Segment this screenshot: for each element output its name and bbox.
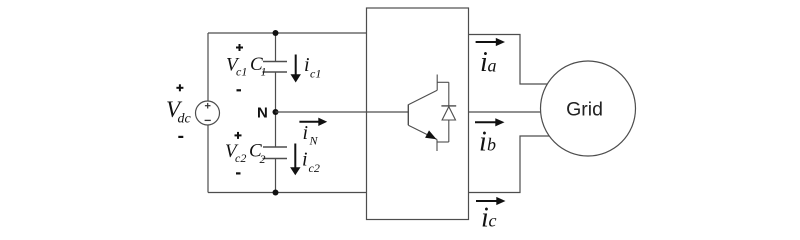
label i_c1 bbox=[304, 54, 321, 81]
wire capacitor branch middle bbox=[275, 72, 277, 147]
arrow i_c2 bbox=[290, 144, 300, 176]
label i_c bbox=[481, 203, 497, 234]
label i_N bbox=[303, 122, 319, 148]
label Vc1 C1 bbox=[226, 54, 267, 79]
wire capacitor branch bottom bbox=[275, 159, 277, 193]
voltage source Vdc bbox=[196, 101, 220, 125]
label Vc2 C2 bbox=[225, 141, 266, 167]
svg-text:i: i bbox=[304, 54, 310, 76]
svg-text:b: b bbox=[487, 135, 496, 155]
svg-text:c1: c1 bbox=[310, 67, 321, 81]
wire phase a bbox=[469, 35, 553, 85]
svg-text:dc: dc bbox=[178, 112, 192, 127]
svg-text:N: N bbox=[309, 134, 319, 148]
svg-text:c2: c2 bbox=[235, 151, 246, 165]
label i_c2 bbox=[302, 149, 320, 176]
label minus (C2) bbox=[236, 172, 241, 174]
svg-text:i: i bbox=[303, 122, 309, 144]
svg-text:i: i bbox=[302, 149, 308, 171]
arrow i_b bbox=[475, 118, 505, 126]
label Vdc bbox=[166, 97, 192, 127]
wire bottom rail bbox=[208, 192, 367, 194]
wire node N to inverter (IGBT base lead) bbox=[276, 111, 409, 113]
junction dot bottom bbox=[273, 190, 279, 196]
node N bbox=[257, 105, 279, 122]
label i_b bbox=[479, 127, 496, 158]
wire phase b bbox=[469, 111, 546, 113]
wire top rail bbox=[208, 32, 367, 34]
svg-text:a: a bbox=[488, 56, 497, 76]
label plus (C2) bbox=[235, 132, 242, 139]
wire left rail bbox=[207, 33, 209, 193]
inverter box U1 bbox=[367, 8, 469, 220]
capacitor C2 bbox=[263, 147, 288, 159]
arrow i_N bbox=[299, 118, 327, 126]
label i_a bbox=[480, 47, 497, 78]
junction dot top bbox=[273, 30, 279, 36]
svg-text:Grid: Grid bbox=[566, 98, 603, 120]
arrow i_a bbox=[476, 38, 505, 46]
wire phase c bbox=[469, 136, 554, 193]
svg-text:i: i bbox=[479, 127, 487, 158]
arrow i_c1 bbox=[291, 55, 301, 83]
svg-text:2: 2 bbox=[260, 152, 266, 166]
svg-text:N: N bbox=[257, 105, 268, 122]
wire capacitor branch top bbox=[275, 33, 277, 62]
arrow i_c bbox=[476, 197, 506, 205]
label minus (source) bbox=[178, 136, 183, 138]
label minus (C1) bbox=[237, 89, 242, 91]
capacitor C1 bbox=[263, 62, 288, 73]
label plus (C1) bbox=[236, 44, 243, 51]
svg-text:c1: c1 bbox=[236, 65, 247, 79]
svg-text:c: c bbox=[489, 211, 497, 231]
svg-text:c2: c2 bbox=[309, 161, 320, 175]
grid circle bbox=[541, 61, 636, 156]
label plus (source) bbox=[176, 84, 183, 91]
diode D1 bbox=[437, 82, 456, 142]
svg-text:1: 1 bbox=[261, 65, 267, 79]
transistor Q1 (IGBT) bbox=[408, 75, 437, 152]
